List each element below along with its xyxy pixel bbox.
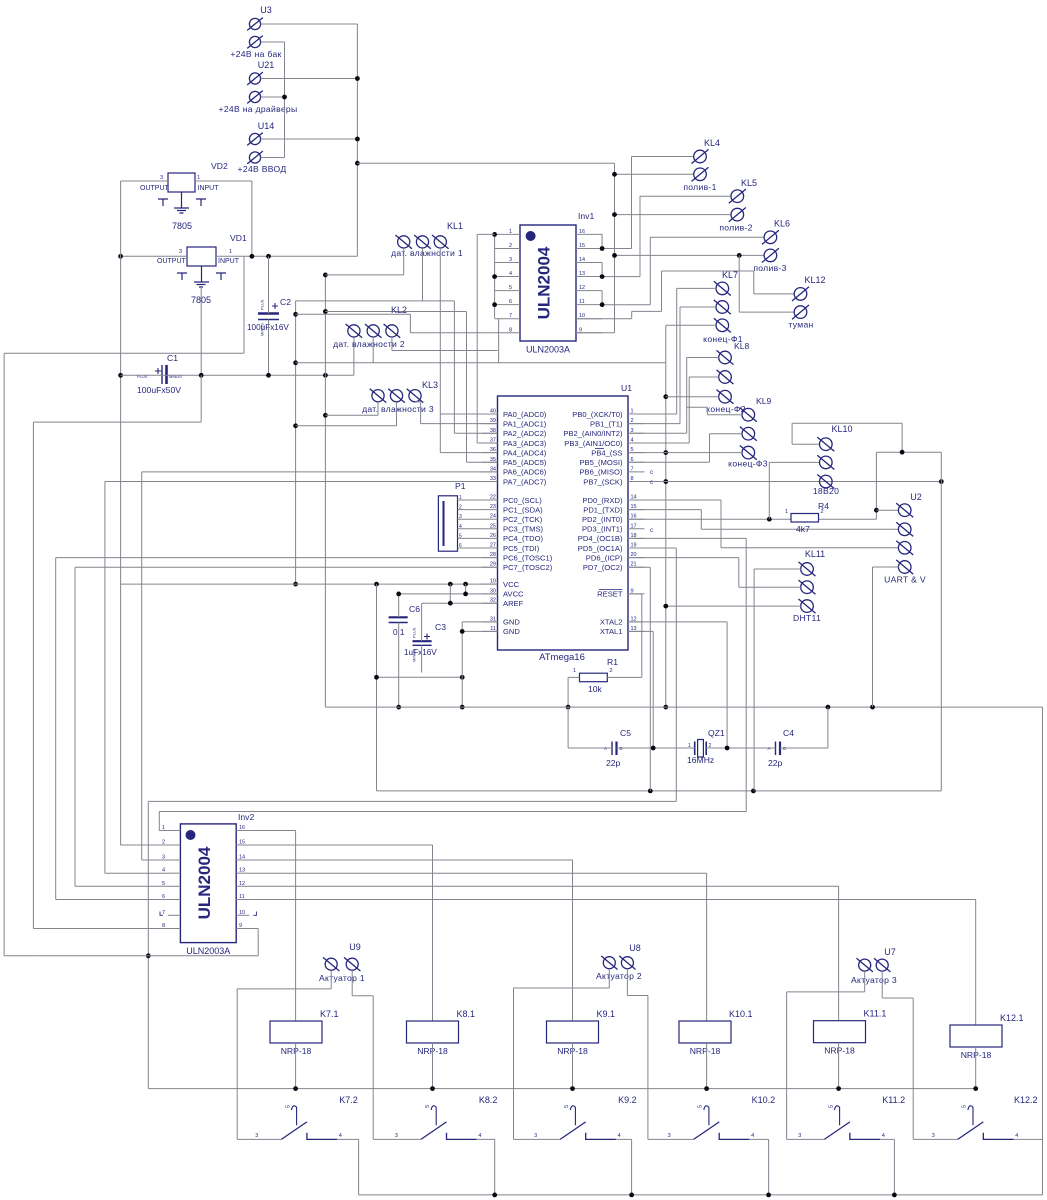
svg-text:Inv2: Inv2 xyxy=(238,812,254,822)
svg-text:K7.1: K7.1 xyxy=(320,1009,339,1019)
IC U1 ATmega16 xyxy=(498,396,629,650)
wire KL3.1 to gnd xyxy=(325,402,378,416)
svg-text:7805: 7805 xyxy=(172,221,192,231)
terminal U8 xyxy=(601,956,636,970)
junction inv1 gang dots xyxy=(492,232,497,307)
svg-text:PB1_(T1): PB1_(T1) xyxy=(590,419,623,428)
svg-text:K7.2: K7.2 xyxy=(339,1095,358,1105)
wire U2.4 gnd xyxy=(873,567,899,707)
wire KL7.1 to PB0 xyxy=(628,288,716,414)
svg-text:4: 4 xyxy=(882,1133,885,1139)
wire inv2 pin16 stub xyxy=(249,831,295,1022)
svg-text:GND: GND xyxy=(503,618,520,627)
svg-text:1: 1 xyxy=(459,495,462,501)
svg-text:конец-Ф2: конец-Ф2 xyxy=(706,404,746,414)
wire VD2 input xyxy=(195,181,252,256)
junction VCC joins xyxy=(374,582,468,587)
svg-text:U8: U8 xyxy=(629,943,641,953)
junction limit common joins xyxy=(663,394,668,709)
wire inv2 out15 xyxy=(249,845,432,1021)
relay coil K9.1 xyxy=(547,1021,599,1043)
wire C3 leads xyxy=(377,603,463,677)
svg-text:2: 2 xyxy=(821,509,824,515)
wire KL5 feed2 xyxy=(615,214,732,216)
junction GND bus joins xyxy=(323,273,328,418)
wire PA5 gnd link xyxy=(325,312,497,463)
terminal KL3 xyxy=(370,389,424,403)
svg-text:PA0_(ADC0): PA0_(ADC0) xyxy=(503,410,547,419)
svg-text:1: 1 xyxy=(509,229,512,235)
junction bottom rail joins xyxy=(492,1193,896,1198)
wire OC1B route xyxy=(159,538,746,830)
relay contact K7.2 xyxy=(281,1106,337,1140)
junction gnd joins xyxy=(460,629,465,709)
wire PC6 route xyxy=(56,558,498,900)
svg-text:3: 3 xyxy=(395,1133,398,1139)
wire U1 GND pins xyxy=(462,622,497,707)
svg-text:KL8: KL8 xyxy=(734,341,750,351)
wire uln1 out1413 xyxy=(602,196,731,276)
svg-text:14: 14 xyxy=(579,257,585,263)
svg-text:QZ1: QZ1 xyxy=(708,728,725,738)
terminal U21 xyxy=(247,72,263,103)
svg-text:PA4_(ADC4): PA4_(ADC4) xyxy=(503,448,547,457)
wire KL1.2 net xyxy=(296,248,498,433)
wire uln1 out10 xyxy=(576,271,794,319)
svg-text:1: 1 xyxy=(785,509,788,515)
terminal KL5 xyxy=(729,189,746,222)
svg-text:DHT11: DHT11 xyxy=(793,613,821,623)
svg-text:4: 4 xyxy=(1015,1133,1018,1139)
terminal KL12 xyxy=(792,287,809,319)
svg-text:PC1_(SDA): PC1_(SDA) xyxy=(503,505,543,514)
terminal U3 xyxy=(247,18,263,49)
wire +24 rail xyxy=(357,163,614,333)
svg-text:PA5_(ADC5): PA5_(ADC5) xyxy=(503,458,547,467)
wire VD1 output rail xyxy=(121,255,187,257)
svg-text:14: 14 xyxy=(239,855,245,861)
wire KL6 feed2 xyxy=(615,254,765,256)
svg-text:MINUS: MINUS xyxy=(412,649,417,662)
wire GND bus xyxy=(324,275,326,707)
svg-text:10k: 10k xyxy=(588,684,603,694)
junction AREF joins xyxy=(448,601,453,606)
relay contact K12.2 xyxy=(958,1106,1014,1140)
terminal KL8 xyxy=(717,350,734,403)
wire uln1 out1211 xyxy=(602,237,764,304)
terminal U9 xyxy=(323,957,360,971)
wire limit common xyxy=(666,325,716,707)
wire crystal row xyxy=(568,707,828,748)
terminal KL10 xyxy=(817,437,834,489)
wire OC1A route xyxy=(148,548,676,801)
svg-text:15: 15 xyxy=(239,840,245,846)
svg-text:Inv1: Inv1 xyxy=(578,211,594,221)
svg-text:5: 5 xyxy=(162,881,165,887)
junction crystal joins xyxy=(651,746,730,751)
wire GND rail xyxy=(325,707,1042,1195)
svg-text:4: 4 xyxy=(618,1133,621,1139)
svg-text:R1: R1 xyxy=(607,657,618,667)
svg-text:дат. влажности 2: дат. влажности 2 xyxy=(333,339,405,349)
svg-text:дат. влажности 3: дат. влажности 3 xyxy=(362,404,434,414)
Inv1 pins left 1-8 xyxy=(495,229,520,333)
svg-text:PA2_(ADC2): PA2_(ADC2) xyxy=(503,429,547,438)
junction riser joins xyxy=(374,675,465,680)
wire KL1.3 to PA0 PA4 xyxy=(440,248,497,453)
svg-text:ULN2004: ULN2004 xyxy=(195,846,214,919)
svg-text:K12.1: K12.1 xyxy=(1000,1013,1024,1023)
svg-text:c: c xyxy=(650,480,653,486)
svg-text:PD0_(RXD): PD0_(RXD) xyxy=(582,496,623,505)
svg-text:PC4_(TDO): PC4_(TDO) xyxy=(503,534,544,543)
svg-text:16: 16 xyxy=(579,229,585,235)
wire U14.1 stub xyxy=(261,138,358,140)
svg-text:3: 3 xyxy=(668,1133,671,1139)
svg-text:OUTPUT: OUTPUT xyxy=(157,258,187,265)
svg-text:PC6_(TOSC1): PC6_(TOSC1) xyxy=(503,553,553,562)
svg-text:Актуатор 2: Актуатор 2 xyxy=(596,971,642,981)
terminal KL1 xyxy=(395,235,448,249)
svg-text:PLUS: PLUS xyxy=(260,299,265,310)
svg-text:5: 5 xyxy=(509,285,512,291)
wire C6 leads xyxy=(398,594,400,707)
wire U3.1 to +24 bus xyxy=(261,24,358,256)
svg-text:c: c xyxy=(650,470,653,476)
wire KL3.2 net xyxy=(296,402,397,426)
svg-text:16MHz: 16MHz xyxy=(687,755,714,765)
svg-text:3: 3 xyxy=(179,249,182,255)
svg-text:NRP-18: NRP-18 xyxy=(824,1046,855,1056)
terminal KL9 xyxy=(740,408,757,460)
svg-text:6: 6 xyxy=(459,543,462,549)
wire switch pin3 leads xyxy=(237,1138,958,1140)
svg-text:PA6_(ADC6): PA6_(ADC6) xyxy=(503,468,547,477)
wire KL9.3 PB4 row xyxy=(628,452,742,454)
svg-text:c: c xyxy=(650,528,653,534)
wire K8.2 output xyxy=(477,1139,495,1195)
svg-text:9: 9 xyxy=(239,923,242,929)
svg-text:MINUS: MINUS xyxy=(169,374,182,379)
wire KL10.2 link xyxy=(769,462,819,519)
wire RXD to U2.3 xyxy=(628,500,899,548)
wire PC7 route xyxy=(75,567,498,886)
svg-text:4: 4 xyxy=(459,524,462,530)
junction 5V joins xyxy=(118,373,123,378)
Inv1 pins right 16-9 xyxy=(576,229,602,333)
svg-text:3: 3 xyxy=(798,1133,801,1139)
svg-text:12: 12 xyxy=(579,285,585,291)
svg-text:PLUS: PLUS xyxy=(137,374,148,379)
svg-text:C2: C2 xyxy=(280,297,291,307)
svg-text:ULN2004: ULN2004 xyxy=(535,246,554,319)
svg-text:7: 7 xyxy=(509,313,512,319)
svg-text:5: 5 xyxy=(459,533,462,539)
svg-text:11: 11 xyxy=(239,894,245,900)
svg-text:полив-1: полив-1 xyxy=(683,182,716,192)
wire inv2 out12 xyxy=(249,886,838,1020)
svg-text:+24В на драйверы: +24В на драйверы xyxy=(219,104,298,114)
svg-text:VD2: VD2 xyxy=(211,161,228,171)
svg-text:6: 6 xyxy=(509,299,512,305)
svg-text:5: 5 xyxy=(285,1105,291,1108)
junction VD1 rails xyxy=(118,254,271,259)
junction INT0 joins xyxy=(767,508,879,522)
svg-text:8: 8 xyxy=(509,327,512,333)
svg-text:U7: U7 xyxy=(884,947,896,957)
wire vcc gnd riser xyxy=(376,584,378,791)
svg-text:5: 5 xyxy=(962,1105,968,1108)
svg-text:VCC: VCC xyxy=(503,580,520,589)
wire XTAL1 riser xyxy=(628,631,653,748)
wire U7 frame xyxy=(787,971,914,1139)
svg-text:K10.2: K10.2 xyxy=(752,1095,776,1105)
wire inv2 com route xyxy=(33,375,258,956)
wire KL9.2 to PB5 xyxy=(628,434,742,463)
capacitor C1 xyxy=(155,365,167,384)
svg-text:2: 2 xyxy=(162,840,165,846)
wire K12.2 output xyxy=(1014,1138,1043,1140)
svg-text:ULN2003A: ULN2003A xyxy=(526,345,570,355)
svg-text:5: 5 xyxy=(425,1105,431,1108)
svg-text:100uFx50V: 100uFx50V xyxy=(137,385,181,395)
wire inv1 pin8 net xyxy=(296,314,495,333)
svg-text:KL9: KL9 xyxy=(756,396,772,406)
svg-text:GND: GND xyxy=(503,627,520,636)
svg-text:INPUT: INPUT xyxy=(198,185,220,192)
wire KL12 feed2 xyxy=(739,255,794,312)
svg-text:4: 4 xyxy=(339,1133,342,1139)
svg-text:4k7: 4k7 xyxy=(796,524,810,534)
svg-text:PD2_(INT0): PD2_(INT0) xyxy=(582,515,623,524)
svg-text:16: 16 xyxy=(239,825,245,831)
capacitor C3 xyxy=(413,634,432,646)
wire XTAL2 riser xyxy=(628,622,727,748)
svg-text:AVCC: AVCC xyxy=(503,590,524,599)
wire coil bottoms xyxy=(296,1043,976,1089)
wire inv1 pin1 to PA3 xyxy=(477,234,497,443)
wire KL10 loop xyxy=(792,423,941,791)
svg-text:PC7_(TOSC2): PC7_(TOSC2) xyxy=(503,563,553,572)
svg-text:2: 2 xyxy=(459,505,462,511)
wire PA7 route xyxy=(105,482,498,874)
svg-text:PB0_(XCK/T0): PB0_(XCK/T0) xyxy=(572,410,623,419)
capacitor C5 xyxy=(612,742,617,756)
wire sensor hub vertical xyxy=(295,301,297,584)
wire U8 frame xyxy=(514,969,648,1140)
svg-text:1: 1 xyxy=(573,668,576,674)
relay contact K9.2 xyxy=(560,1106,616,1140)
svg-text:KL6: KL6 xyxy=(774,219,790,229)
regulator VD1 (7805) xyxy=(177,247,226,287)
junction relay rail joins xyxy=(293,1086,978,1091)
svg-text:KL2: KL2 xyxy=(391,305,407,315)
wire U21.1 stub xyxy=(261,78,358,80)
relay coil K7.1 xyxy=(270,1021,322,1043)
svg-text:KL12: KL12 xyxy=(804,275,825,285)
svg-text:3: 3 xyxy=(459,514,462,520)
wire R1 left xyxy=(568,677,579,707)
svg-text:туман: туман xyxy=(788,320,813,330)
junction AVCC joins xyxy=(463,592,468,597)
svg-text:+24В на бак: +24В на бак xyxy=(230,49,281,59)
svg-text:K11.2: K11.2 xyxy=(882,1095,905,1105)
svg-text:2: 2 xyxy=(610,668,613,674)
svg-text:AREF: AREF xyxy=(503,599,524,608)
wire K9.2 output xyxy=(616,1139,632,1195)
Inv2 pins left 1-8 xyxy=(162,825,180,929)
svg-text:3: 3 xyxy=(162,855,165,861)
capacitor C4 xyxy=(776,742,781,756)
svg-text:PB3_(AIN1/OC0): PB3_(AIN1/OC0) xyxy=(564,439,623,448)
svg-text:C3: C3 xyxy=(435,622,446,632)
svg-text:PB6_(MISO): PB6_(MISO) xyxy=(579,468,623,477)
junction C6 joins xyxy=(396,592,401,710)
svg-text:PD7_(OC2): PD7_(OC2) xyxy=(583,563,623,572)
wire uln1 out1615 xyxy=(602,157,694,249)
svg-text:U9: U9 xyxy=(349,942,361,952)
svg-text:5: 5 xyxy=(698,1105,704,1108)
svg-text:U3: U3 xyxy=(260,5,272,15)
wire C2 leads xyxy=(268,256,270,375)
svg-text:PC0_(SCL): PC0_(SCL) xyxy=(503,496,542,505)
U1 right pin labels xyxy=(563,409,644,637)
svg-text:1: 1 xyxy=(162,825,165,831)
wire K10.2 output xyxy=(749,1139,768,1195)
svg-text:PD1_(TXD): PD1_(TXD) xyxy=(583,505,623,514)
wire KL11.2 ICP xyxy=(628,558,801,588)
wire INT0 R4 row xyxy=(628,452,876,519)
svg-text:PA3_(ADC3): PA3_(ADC3) xyxy=(503,439,547,448)
wire plus5 rail xyxy=(377,790,942,792)
terminal KL4 xyxy=(692,149,709,181)
svg-text:K8.1: K8.1 xyxy=(457,1009,476,1019)
terminal U14 xyxy=(247,133,263,164)
svg-text:VD1: VD1 xyxy=(230,233,247,243)
svg-text:PB4_(SS: PB4_(SS xyxy=(591,448,622,457)
svg-text:OUTPUT: OUTPUT xyxy=(140,185,170,192)
wire KL3.3 to PA1 xyxy=(415,402,498,424)
svg-text:C6: C6 xyxy=(409,604,420,614)
wire U2.1 stub xyxy=(876,509,898,511)
svg-text:10: 10 xyxy=(239,910,245,916)
NC markers pins 7 10 xyxy=(160,912,163,916)
svg-text:PD3_(INT1): PD3_(INT1) xyxy=(582,525,623,534)
resistor R4 xyxy=(791,514,819,523)
svg-text:5: 5 xyxy=(564,1105,570,1108)
connector P1 xyxy=(438,496,457,551)
svg-text:6: 6 xyxy=(162,894,165,900)
terminal KL6 xyxy=(762,230,779,262)
terminal KL11 xyxy=(799,562,816,613)
wire R1 right to RESET xyxy=(607,594,642,678)
svg-text:4: 4 xyxy=(162,868,165,874)
terminal KL7 xyxy=(714,281,731,332)
svg-text:22p: 22p xyxy=(606,758,621,768)
wire K11.2 output xyxy=(880,1139,894,1195)
wire KL7.2 to PB1 xyxy=(628,307,716,424)
junction plus5 joins xyxy=(648,789,756,794)
svg-text:KL10: KL10 xyxy=(831,424,852,434)
svg-text:PC3_(TMS): PC3_(TMS) xyxy=(503,525,544,534)
svg-text:KL1: KL1 xyxy=(447,221,463,231)
wire GND rail C1 xyxy=(121,337,354,375)
junction +24 bus joins xyxy=(282,76,360,166)
svg-text:KL7: KL7 xyxy=(722,270,738,280)
svg-text:UART & V: UART & V xyxy=(884,575,926,585)
wire PB7 SCK row xyxy=(628,481,941,483)
svg-text:KL5: KL5 xyxy=(741,178,757,188)
svg-text:4: 4 xyxy=(478,1133,481,1139)
svg-text:13: 13 xyxy=(239,868,245,874)
wire VD1 input rail xyxy=(216,255,357,257)
relay contact K10.2 xyxy=(694,1106,750,1140)
svg-text:PC2_(TCK): PC2_(TCK) xyxy=(503,515,543,524)
svg-text:ULN2003A: ULN2003A xyxy=(186,946,230,956)
IC Inv1 ULN2004 xyxy=(520,225,576,341)
svg-text:K9.2: K9.2 xyxy=(618,1095,637,1105)
junction com joins xyxy=(146,953,151,958)
capacitor C2 xyxy=(258,303,279,320)
wire KL8.3 common xyxy=(666,396,719,398)
svg-text:U2: U2 xyxy=(910,492,922,502)
svg-text:конец-Ф3: конец-Ф3 xyxy=(728,459,768,469)
wire VD1 gnd riser xyxy=(200,287,202,375)
svg-text:PB5_(MOSI): PB5_(MOSI) xyxy=(579,458,623,467)
svg-text:+24В ВВОД: +24В ВВОД xyxy=(238,164,287,174)
relay coil K12.1 xyxy=(950,1025,1002,1047)
svg-text:1: 1 xyxy=(197,175,200,181)
wire VCC rail xyxy=(121,583,498,585)
svg-text:XTAL2: XTAL2 xyxy=(600,618,623,627)
junction GND rail joins xyxy=(199,373,328,378)
junction GND rail joins xyxy=(826,705,875,710)
svg-text:11: 11 xyxy=(579,299,585,305)
IC Inv2 ULN2004 xyxy=(180,824,236,943)
wire inv2 pin8 route xyxy=(4,256,244,956)
wire KL1.1 to gnd xyxy=(325,248,403,275)
svg-text:K12.2: K12.2 xyxy=(1014,1095,1038,1105)
svg-text:NRP-18: NRP-18 xyxy=(690,1046,721,1056)
svg-text:PB2_(AIN0/INT2): PB2_(AIN0/INT2) xyxy=(563,429,623,438)
wire KL8.2 to PB3 xyxy=(628,377,719,443)
svg-text:C5: C5 xyxy=(620,728,631,738)
svg-text:1uFx16V: 1uFx16V xyxy=(404,648,437,657)
regulator VD2 (7805) xyxy=(158,173,206,213)
svg-text:INPUT: INPUT xyxy=(218,258,240,265)
svg-text:U1: U1 xyxy=(621,383,632,393)
svg-text:U21: U21 xyxy=(258,60,275,70)
junction +24 taps xyxy=(612,172,742,258)
wire K7.2 output xyxy=(337,1139,359,1195)
svg-text:15: 15 xyxy=(579,243,585,249)
svg-text:C1: C1 xyxy=(167,353,178,363)
wire inv2 out14 xyxy=(249,860,572,1021)
svg-text:1: 1 xyxy=(229,249,232,255)
svg-text:PA7_(ADC7): PA7_(ADC7) xyxy=(503,477,547,486)
wire OC2 riser xyxy=(628,567,650,791)
svg-text:3: 3 xyxy=(932,1133,935,1139)
svg-text:полив-2: полив-2 xyxy=(719,223,752,233)
wire VD2 output xyxy=(121,180,168,182)
junction hub joins xyxy=(293,312,298,587)
relay contact K8.2 xyxy=(421,1106,477,1140)
junction uln1 gang outs xyxy=(600,246,605,307)
terminal KL2 xyxy=(346,324,401,338)
wire AVCC line xyxy=(399,584,498,594)
svg-text:Актуатор 3: Актуатор 3 xyxy=(851,975,897,985)
relay coil K8.1 xyxy=(407,1021,459,1043)
